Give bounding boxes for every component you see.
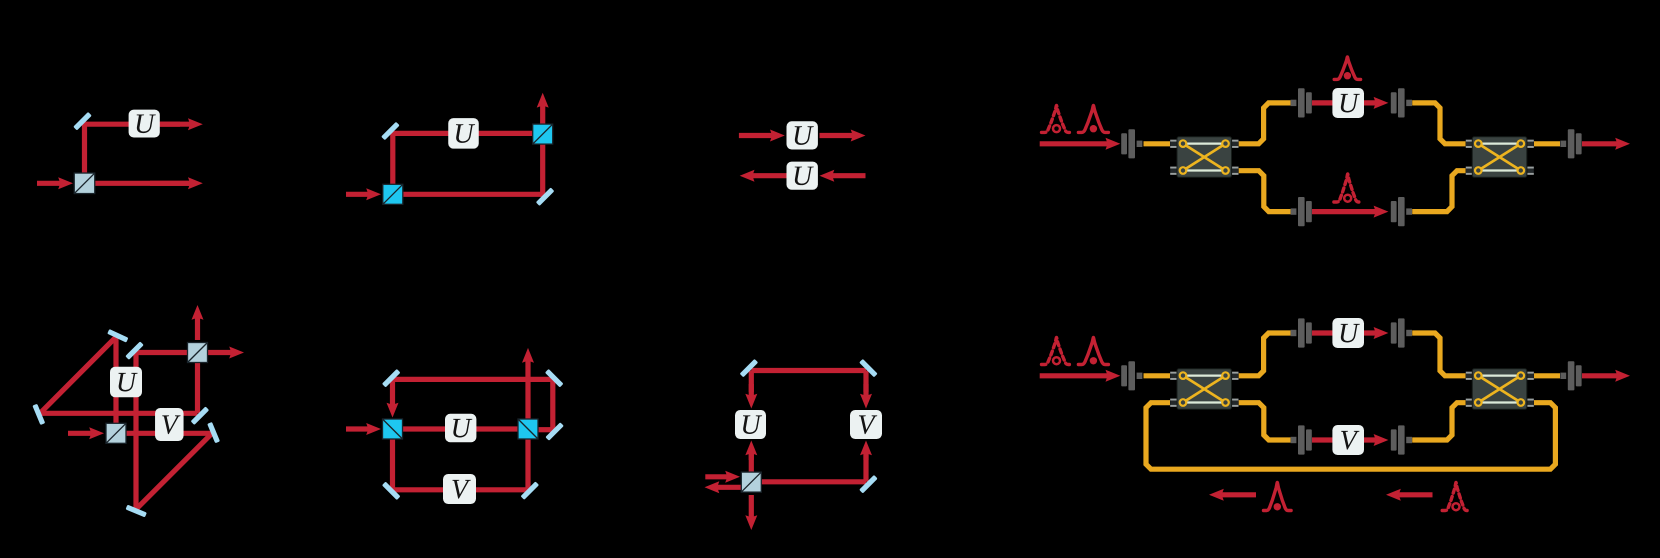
beam to U d8 [1312,330,1334,335]
port mark FC2-LB d4 [1466,167,1472,175]
beam splitter BS2 d6 [518,419,538,439]
output arrow up d6 [522,348,534,419]
V-right fiber connector d8 [1391,425,1412,454]
arrow into U bottom d7 [745,441,757,461]
input pulse ring d4 [1042,105,1072,132]
fiber bottom branch to FC2 d4 [1412,171,1465,212]
V box d7 [850,410,882,439]
port mark FC2-LB d8 [1466,399,1472,407]
beam splitter BS d7 [741,472,761,492]
input pulse dot d8 [1078,338,1108,365]
V box d8 [1332,425,1364,455]
backward output arrow d3 [740,170,787,182]
fiber FC1 to bottom branch d4 [1239,171,1291,212]
output fiber connector d4 [1560,129,1581,158]
vertical U to TL d7 [749,371,754,393]
beam BS2 right d6 [538,427,553,432]
port mark FC2-LT d8 [1466,372,1472,380]
beam BS1-U d6 [403,426,446,431]
mirror M2 d2 [536,187,555,206]
port mark FC1-RT d8 [1232,372,1238,380]
vertical beam M3 to BS2 d5 [195,353,200,414]
mirror BL d6 [382,482,401,501]
top-right fiber connector d4 [1391,88,1412,117]
input beam arrow d5 [68,427,104,439]
pulse bottom branch d4 [1334,174,1362,202]
top beam d7 [751,368,866,373]
vertical TR down d7 [863,371,868,393]
input beam arrow d2 [346,188,381,200]
diag beam M4-M6 d5 [136,433,212,509]
fiber FC1 to V branch d8 [1239,403,1291,440]
port mark FC2-RB d8 [1527,399,1533,407]
upper beam mirror to U d1 [85,122,131,127]
U box d1 [129,110,160,138]
U-right fiber connector d8 [1391,318,1412,347]
V-left fiber connector d8 [1291,425,1312,454]
feedback arrow down d6 [387,379,399,417]
fiber FC1 to top branch d4 [1239,103,1291,144]
beam splitter BS1 d6 [383,419,403,439]
feedback loop fiber d8 [1146,403,1555,470]
mirror M5 d5 [32,404,45,425]
beam splitter BS1 d5 [106,423,126,443]
vertical beam BS1-M1 d2 [390,131,395,194]
beam to U d4 [1312,100,1334,105]
fiber coupler FC2 d8 [1472,369,1527,410]
output arrow down d7 [745,495,757,530]
beam to V d8 [1312,437,1334,442]
diag beam M1-M5 d5 [40,337,116,413]
input fiber d8 [1144,373,1171,378]
mirror M6 d5 [126,505,147,518]
mirror M1 d2 [381,122,400,141]
port mark FC1-RT d4 [1232,140,1238,148]
vertical beam x2 d5 [133,353,138,509]
forward input arrow d3 [739,130,785,142]
arrow into V bottom d7 [860,441,872,461]
mirror TR d7 [859,359,878,378]
input fiber connector d8 [1121,361,1142,390]
beam U-BS2 d6 [475,426,518,431]
output beam arrow upper d1 [160,118,203,130]
input pulse dot d4 [1078,105,1108,132]
U box forward d3 [787,121,818,149]
beam U to connector d8 [1364,327,1388,339]
beam V to connector d8 [1364,434,1388,446]
port mark FC2-RB d4 [1527,167,1533,175]
bottom beam V-BR d6 [475,487,528,492]
vertical BS1 down d6 [390,439,395,490]
fiber V branch to FC2 d8 [1412,403,1465,440]
vertical BR-BS2 d6 [525,440,530,490]
mirror M1 d5 [107,329,128,343]
top beam U-BS2 d2 [478,131,543,136]
port mark FC1-RB d4 [1232,167,1238,175]
fiber top branch to FC2 d4 [1412,103,1465,144]
beam BS1 to output d1 [95,181,192,186]
pulse above U d4 [1334,57,1360,80]
arrow into U top d7 [745,384,757,409]
backward right arrow d3 [820,170,866,182]
bottom beam d7 [761,479,866,484]
upper beam U to output d1 [158,122,180,127]
mirror TL d6 [382,369,401,388]
beam splitter BS2 d5 [188,343,208,363]
loop pulse ring d8 [1442,483,1470,511]
output fiber connector d8 [1560,361,1581,390]
port mark FC2-RT d8 [1527,372,1533,380]
output beam arrow d4 [1582,138,1630,150]
mirror BR d6 [521,481,540,500]
U box d8 [1332,318,1364,348]
U box backward d3 [787,162,818,190]
port mark in-LB d4 [1170,167,1176,175]
horizontal beam y2 d5 [116,431,212,436]
port mark FC1-RB d8 [1232,399,1238,407]
input beam arrow d6 [346,423,381,435]
V box d5 [155,408,184,441]
input beam arrow d7 [705,471,740,483]
beam splitter BS1 d1 [74,173,95,194]
output fiber d8 [1534,373,1560,378]
beam splitter BS2 d2 [533,124,553,144]
output beam arrow lower d1 [150,177,203,189]
bottom-right fiber connector d4 [1391,197,1412,226]
input fiber connector d4 [1121,129,1142,158]
mirror TL d7 [740,359,759,378]
U box d7 [735,410,766,439]
top beam M1-U d2 [393,131,450,136]
beam M2 to BS2 d5 [136,350,198,355]
vertical BS up d7 [749,452,754,472]
loop arrow left 2 d8 [1386,489,1433,501]
vertical right up d6 [550,379,555,429]
bottom beam BL-V d6 [393,487,447,492]
port mark in-LT d4 [1170,140,1176,148]
loop pulse dot d8 [1264,483,1292,511]
mirror M1 d1 [73,112,92,131]
port mark FC2-LT d4 [1466,140,1472,148]
loop arrow left 1 d8 [1209,489,1256,501]
right output arrow d5 [207,347,244,359]
V box d6 [443,474,476,504]
up output arrow d5 [192,305,204,340]
vertical beam M2-BS2 d2 [540,140,545,197]
input beam arrow d1 [37,177,73,189]
beam U to connector d4 [1364,97,1388,109]
input beam arrow d8 [1040,370,1121,382]
input pulse ring d8 [1042,338,1072,365]
U box d2 [448,118,479,149]
fiber coupler FC2 d4 [1472,137,1527,178]
bottom beam BS1-M2 d2 [403,192,545,197]
mirror M2 d5 [125,341,144,360]
port mark FC2-RT d4 [1527,140,1533,148]
U box d6 [445,414,476,442]
port mark in-LT d8 [1170,372,1176,380]
top-left fiber connector d4 [1291,88,1312,117]
fiber FC1 to U branch d8 [1239,333,1291,376]
vertical beam d1 [82,122,87,184]
mirror RM d6 [545,422,564,441]
horizontal beam y1 d5 [40,411,198,416]
output beam arrow d8 [1582,370,1630,382]
input fiber d4 [1144,141,1171,146]
output beam arrow d2 [537,93,549,128]
output fiber d4 [1534,141,1560,146]
forward output arrow d3 [820,130,866,142]
top beam d6 [393,377,553,382]
U box d4 [1332,88,1364,118]
vertical beam x1 d5 [113,337,118,433]
output beam arrow left d7 [705,481,742,493]
bottom-left fiber connector d4 [1291,197,1312,226]
U box d5 [110,367,142,398]
U-left fiber connector d8 [1291,318,1312,347]
arrow into V top d7 [860,384,872,409]
mirror TR d6 [545,369,564,388]
beam bottom branch d4 [1312,206,1388,218]
fiber U branch to FC2 d8 [1412,333,1465,376]
fiber coupler FC1 d4 [1177,137,1232,178]
mirror M4 d5 [207,422,220,443]
mirror M3 d5 [191,406,210,425]
beam splitter BS1 d2 [383,184,403,204]
mirror BR d7 [859,475,878,494]
input beam arrow d4 [1040,138,1121,150]
vertical BR up d7 [863,452,868,482]
fiber coupler FC1 d8 [1177,369,1232,410]
port mark in-LB d8 [1170,399,1176,407]
